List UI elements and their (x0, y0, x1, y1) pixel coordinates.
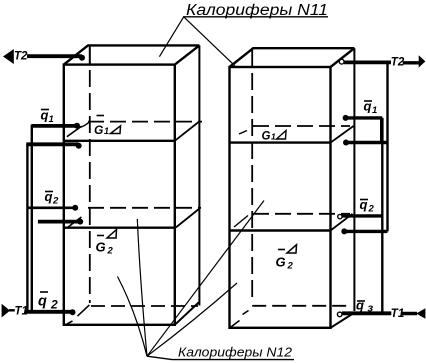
T1 left stub (9, 309, 15, 311)
T1 right pipe tail (401, 312, 417, 315)
svg-text:1: 1 (271, 132, 276, 142)
T1 right pipe (342, 311, 391, 315)
N12 leader 4 into right box (147, 283, 237, 356)
svg-text:2: 2 (287, 261, 294, 272)
svg-text:2: 2 (50, 298, 58, 312)
N12 leader 1 into left box (118, 277, 148, 357)
right box shelf 1 left partial diagonal (239, 131, 247, 135)
svg-text:з: з (368, 303, 374, 315)
N11 leader to right box (184, 17, 235, 66)
svg-text:q: q (41, 108, 49, 123)
T1 left arrow (2, 304, 10, 318)
N12 leader 3 into right box (147, 201, 264, 357)
svg-text:q: q (45, 189, 53, 204)
pipe q1 lower (left) (26, 142, 78, 146)
left box shelf 1 front edge (64, 140, 175, 142)
dot pipe q1 upper (74, 123, 80, 129)
pipe q2 upper (right) circle (338, 214, 342, 218)
right box bottom-right diagonal (331, 313, 355, 328)
right header vertical V1 (386, 62, 388, 231)
svg-text:Калориферы N12: Калориферы N12 (178, 345, 293, 360)
left box shelf 2 left partial diagonal (67, 217, 82, 228)
right box bottom-left partial diagonal (230, 311, 249, 328)
T2 right arrow (419, 55, 426, 67)
svg-text:q: q (38, 294, 47, 310)
label q2 bottom-left macron (40, 291, 48, 293)
dot pipe q1 upper right (343, 115, 349, 121)
label G2 left macron (97, 235, 104, 237)
left box hidden back-left vertical edge (dashed) (89, 45, 91, 64)
label q2 left macron (45, 191, 53, 193)
N12 leader 2 into left box (137, 219, 147, 356)
pipe q2 upper (right) (342, 214, 382, 217)
right box back-right vertical edge (353, 48, 355, 311)
dot T1 left pipe (70, 309, 76, 315)
dot pipe q1 lower (76, 143, 82, 149)
svg-text:G: G (94, 123, 103, 137)
pipe q2 lower (left) (38, 220, 80, 224)
label G2 right triangle (287, 245, 297, 253)
svg-text:T2: T2 (14, 51, 28, 63)
svg-text:G: G (276, 255, 286, 270)
left box bottom-left partial diagonals (67, 305, 90, 324)
label G2 right macron (278, 249, 285, 251)
right box shelf 2 left partial diagonal (234, 216, 248, 228)
label G2 left triangle (107, 230, 117, 239)
right box hidden back-bottom edge (dashed) (252, 305, 351, 307)
left header vertical B (26, 144, 28, 311)
T2 left junction dot (79, 55, 85, 61)
right box hidden back-left vertical edge (dashed) (251, 50, 253, 303)
label q1 right macron (364, 100, 372, 102)
V2 thick segment (380, 118, 384, 144)
left box bottom-right diagonal (175, 302, 200, 325)
right heater box (front face) (230, 67, 331, 328)
pipe q1 upper (right) (346, 116, 383, 119)
pipe q1 upper (left) (32, 124, 77, 128)
dot pipe q1 lower right (343, 140, 349, 146)
svg-text:1: 1 (372, 105, 377, 116)
N11 leader to left box (159, 17, 183, 57)
right box shelf 2 right diagonal (331, 214, 353, 231)
left box back-right vertical edge (198, 45, 200, 305)
dot pipe q2 lower right (341, 228, 347, 234)
left box shelf 1 hidden edge (dashed) (88, 121, 202, 123)
svg-text:2: 2 (107, 246, 114, 257)
svg-text:q: q (364, 99, 372, 114)
svg-text:2: 2 (52, 196, 59, 207)
svg-text:G: G (262, 131, 271, 143)
left box hidden back-bottom edge (dashed) (91, 305, 198, 307)
pipe q1 lower (right) (346, 141, 388, 144)
left box shelf 1 right diagonal (175, 122, 199, 141)
svg-text:q: q (360, 197, 368, 212)
T1 left pipe (26, 310, 73, 314)
svg-text:2: 2 (368, 204, 375, 215)
pigtail pipe1 to hidden edge (78, 122, 89, 127)
T2 left pipe (27, 54, 82, 58)
label G1 left triangle (111, 126, 121, 134)
left box shelf 2 hidden edge (dashed) (88, 207, 201, 209)
left box shelf 2 right diagonal (176, 209, 200, 228)
label q3 bottom-right macron (357, 300, 365, 302)
title N11 underline (183, 16, 328, 18)
right box shelf 1 right diagonal (331, 126, 354, 143)
T1 right arrow (416, 308, 425, 319)
label q1 left macron (41, 109, 49, 111)
left box top face (64, 45, 200, 64)
T2 right pipe (344, 61, 391, 65)
right box shelf 1 front edge (230, 141, 331, 143)
T2 right junction circle (339, 59, 344, 64)
dot pipe q2 lower (77, 219, 83, 225)
T1 right junction circle (337, 312, 342, 317)
T2 right pipe tail (403, 61, 419, 64)
left heater box N11 (front face) (64, 65, 175, 325)
svg-text:q: q (356, 298, 364, 313)
svg-text:1: 1 (104, 126, 109, 136)
T2 left arrow (3, 49, 14, 64)
pipe q2 lower (right) (344, 230, 387, 233)
right box shelf 1 hidden edge (dashed) (253, 125, 350, 127)
right header vertical V2 (381, 118, 383, 313)
left box shelf 2 front edge (64, 226, 175, 228)
dot pipe q2 upper (72, 205, 78, 211)
right box top face (230, 48, 355, 67)
pipe q2 upper (left) (27, 207, 75, 210)
right box shelf 2 hidden edge (dashed) (253, 213, 350, 215)
label q2 right macron (360, 199, 368, 201)
right box shelf 2 front edge (230, 229, 331, 231)
left box shelf 1 left partial diagonal (67, 126, 82, 137)
label G1 right triangle (277, 131, 287, 140)
svg-text:G: G (96, 240, 106, 255)
title N12 underline (147, 356, 294, 359)
left header vertical A (31, 125, 33, 312)
svg-text:1: 1 (49, 114, 54, 125)
label G1 left macron (97, 115, 105, 117)
